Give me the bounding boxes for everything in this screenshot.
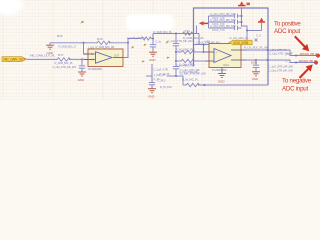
wire Vocm pin down [221, 68, 223, 74]
capacitor bank row 1 [209, 12, 242, 20]
junction feedback node [82, 42, 84, 44]
no-ERC cross [255, 39, 258, 42]
olive marker 3 [144, 44, 146, 46]
junction N row right [295, 61, 297, 63]
ground filter [149, 52, 157, 56]
annotation arrow to negative port [300, 65, 313, 78]
bracket wire cap bank [208, 16, 210, 28]
svg-text:100nF_X7R: 100nF_X7R [212, 29, 225, 32]
svg-text:ADC123_IN5_N: ADC123_IN5_N [299, 59, 317, 63]
junction row N [175, 60, 177, 62]
olive marker 7 [188, 33, 190, 35]
capacitor C input shunt [53, 59, 86, 71]
wire bias chain vertical [151, 64, 153, 82]
svg-text:-IN: -IN [90, 53, 93, 56]
svg-text:R_SUB_MIC_FB: R_SUB_MIC_FB [96, 45, 115, 49]
olive marker 1 [81, 21, 84, 23]
svg-text:R15: R15 [57, 34, 63, 38]
wire output P [246, 50, 316, 56]
svg-text:R_SUB_MIC_PL: R_SUB_MIC_PL [154, 30, 173, 34]
junction node input [81, 58, 83, 60]
capacitor VCM filter [253, 60, 259, 72]
harness entry arrow [199, 21, 208, 25]
rail wire cap bank [242, 8, 248, 40]
resistor R21 [176, 59, 201, 72]
svg-text:R_SUB_MIC_PL: R_SUB_MIC_PL [127, 36, 146, 40]
svg-text:C_1uF_XTR_MF_MO: C_1uF_XTR_MF_MO [180, 71, 207, 75]
ground bias [148, 89, 156, 93]
wire row N left [176, 60, 181, 62]
white blob middle [126, 15, 174, 31]
svg-text:GND: GND [78, 78, 84, 82]
svg-text:GND: GND [148, 95, 154, 99]
capacitor bank row 3 [209, 24, 242, 32]
wire port to R17 [27, 58, 58, 60]
svg-text:TLV9062IDR: TLV9062IDR [88, 67, 103, 71]
annotation text To negative ADC input [282, 77, 312, 92]
wire chain upper [175, 34, 177, 44]
wire harness tap to row P [194, 45, 210, 53]
svg-text:C_1uF_XTR: C_1uF_XTR [154, 67, 168, 71]
svg-text:R_US_ADC_PL: R_US_ADC_PL [230, 36, 249, 40]
ground feedback Rg [46, 43, 54, 55]
junction rail VREF [246, 29, 248, 31]
capacitor filter to gnd [150, 39, 162, 53]
resistor R19 [182, 29, 204, 40]
annotation text To positive ADC input [274, 21, 301, 35]
svg-text:C_Out_XTR_MF_MO: C_Out_XTR_MF_MO [210, 24, 236, 28]
wire R18 to jog [151, 38, 153, 40]
capacitor bias [149, 82, 155, 84]
wire R17 to opamp +IN [70, 58, 89, 60]
svg-text:ADC input: ADC input [274, 28, 300, 35]
svg-text:R_US_ADC_PL_MF: R_US_ADC_PL_MF [244, 46, 269, 50]
wire R16 to output node [110, 42, 129, 44]
svg-text:C_0u: C_0u [154, 77, 161, 81]
ground VCM filter [252, 72, 260, 76]
svg-text:GND: GND [218, 79, 224, 83]
junction filter cap [152, 37, 154, 39]
resistor R18 [127, 36, 152, 40]
ground input shunt [78, 72, 86, 76]
resistor R16 [96, 37, 115, 49]
junction bottom return [203, 84, 205, 86]
svg-text:R_SUB_MIC_PL: R_SUB_MIC_PL [55, 61, 74, 65]
wire upper run [153, 33, 199, 35]
wire chain middle [175, 46, 177, 66]
junction P row right [295, 54, 297, 56]
resistor R22 bottom [180, 71, 207, 86]
junction output N / vcm cap [255, 59, 257, 61]
svg-text:C_1u: C_1u [155, 39, 162, 43]
wire jog up [152, 34, 154, 39]
wire Rg to feedback node [50, 42, 97, 44]
port ADC P [316, 54, 320, 57]
svg-text:C_Out_XTR_MF_MO: C_Out_XTR_MF_MO [210, 18, 236, 22]
svg-text:R17: R17 [58, 53, 64, 57]
wire lower run left [128, 38, 141, 40]
junction upper run to divider chain [175, 32, 177, 34]
op-amp U16 [84, 45, 123, 71]
svg-text:ADC123_IN5_P: ADC123_IN5_P [300, 52, 318, 56]
op-amp U15 [205, 40, 247, 72]
svg-text:C_3: C_3 [256, 34, 261, 38]
resistor R20 [176, 48, 196, 54]
junction rail row1 [240, 15, 242, 17]
svg-text:U15: U15 [205, 40, 211, 44]
svg-text:_PL: _PL [284, 52, 290, 56]
wire corner down to bottom run [182, 76, 184, 85]
wire row P to pin [194, 51, 206, 53]
capacitor C coupling 1 [173, 44, 179, 46]
svg-text:TLV9062IDR: TLV9062IDR [212, 68, 227, 72]
power flag VREF [258, 18, 265, 31]
svg-text:Vocm: Vocm [223, 64, 229, 67]
svg-text:100n: 100n [251, 60, 258, 64]
svg-text:MIC_GAIN_OUT: MIC_GAIN_OUT [3, 57, 25, 61]
junction row P [175, 51, 177, 53]
svg-text:GND: GND [252, 77, 258, 81]
junction harness tap [202, 43, 204, 45]
capacitor bank row 2 [209, 18, 242, 26]
annotation arrow to positive port [295, 36, 309, 50]
wire node to -IN [84, 43, 89, 54]
capacitor C coupling 2 [173, 62, 199, 74]
svg-text:C_Out_XTR_MF_MO: C_Out_XTR_MF_MO [210, 12, 236, 16]
svg-text:R_W_MC_PL: R_W_MC_PL [182, 78, 199, 82]
wire bias chain stub left [146, 75, 152, 77]
power flag 3V3A [238, 1, 250, 6]
wire row N to pin [194, 60, 206, 62]
svg-text:C_Opt_XTR_MF_MO: C_Opt_XTR_MF_MO [53, 65, 77, 69]
wire output N [246, 60, 314, 63]
junction output feedback [127, 42, 129, 44]
svg-text:GND: GND [47, 51, 53, 55]
white blob top-left [0, 0, 23, 15]
ground Vocm [218, 74, 226, 78]
svg-text:To negative: To negative [282, 77, 312, 84]
junction output N / return [266, 59, 268, 61]
svg-text:C_Opt_XTR_MF_240: C_Opt_XTR_MF_240 [268, 69, 293, 73]
port VCM [229, 40, 252, 45]
svg-text:GND: GND [149, 58, 155, 62]
wire upper run to tap [198, 34, 200, 45]
svg-text:VCM_0V95: VCM_0V95 [233, 41, 248, 45]
junction output P / return [266, 49, 268, 51]
junction row P tap [202, 51, 204, 53]
port ADC N [314, 61, 318, 64]
wire row P left [176, 51, 181, 53]
svg-text:OUT: OUT [114, 55, 120, 58]
svg-text:C_7: C_7 [286, 59, 292, 63]
olive marker 4 [166, 42, 168, 44]
wire upper run to harness arrow [196, 26, 198, 34]
svg-text:R_SUB_MIC_G: R_SUB_MIC_G [59, 45, 76, 49]
wire bottom return right [199, 84, 269, 86]
wire chain lower [175, 69, 177, 76]
svg-text:C_1uF_XTR_MF_MO: C_1uF_XTR_MF_MO [168, 39, 194, 43]
harness box frame [194, 8, 269, 85]
svg-text:ADC input: ADC input [282, 86, 308, 93]
wire stub left at bottom [167, 75, 183, 77]
wire bottom return left [183, 84, 186, 86]
resistor R17 [55, 53, 74, 65]
wire VREF to rail [247, 30, 262, 32]
port MIC_GAIN_OUT [2, 57, 27, 62]
olive marker 5 [167, 57, 169, 59]
wire opamp out up to lower run [123, 39, 128, 58]
svg-text:R_W_PL2: R_W_PL2 [160, 85, 172, 89]
svg-text:+IN: +IN [90, 59, 94, 62]
olive marker 6 [142, 61, 144, 63]
wire bias to gnd [151, 85, 153, 89]
svg-text:R16: R16 [97, 37, 103, 41]
svg-text:To positive: To positive [274, 21, 301, 28]
junction bottom chain [175, 75, 177, 77]
junction rail row2 [240, 21, 242, 23]
olive marker 2 [132, 46, 134, 48]
